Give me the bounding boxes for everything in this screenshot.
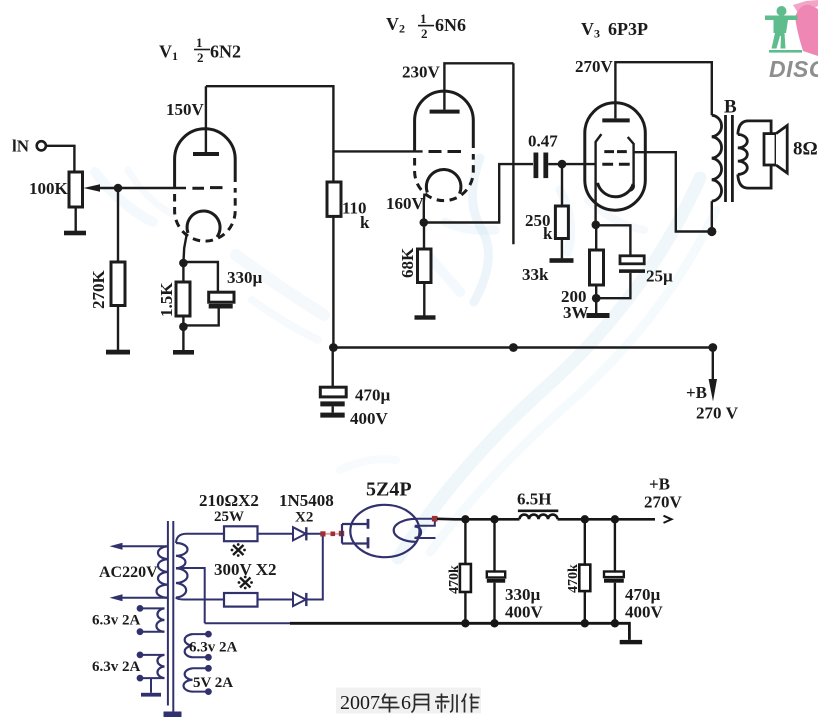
svg-text:470µ: 470µ xyxy=(355,386,391,405)
+B arrow down xyxy=(712,348,714,382)
svg-text:100K: 100K xyxy=(29,179,69,198)
wire junction to V1 grid xyxy=(118,187,186,189)
node 0V 470k1 xyxy=(461,619,469,627)
svg-text:270K: 270K xyxy=(89,270,108,310)
wire secondary top to speaker xyxy=(738,121,771,135)
svg-text:270 V: 270 V xyxy=(696,404,739,423)
node 0V 470k2 xyxy=(581,619,589,627)
5Z4P anode bracket xyxy=(342,524,368,544)
glyph zuo (make2) xyxy=(462,694,480,713)
node grid V1 junction xyxy=(114,184,123,193)
glyph zhi (make1) xyxy=(435,694,457,713)
wire junction down to 270K xyxy=(117,188,119,262)
5Z4P filament arc xyxy=(394,519,416,542)
svg-text:68K: 68K xyxy=(398,247,417,278)
tube V2 envelope (dashed bottom half) xyxy=(415,154,474,201)
wire HV bottom lead to resistor xyxy=(176,598,224,600)
svg-text:1.5K: 1.5K xyxy=(157,282,176,317)
node V3 grid xyxy=(558,160,567,169)
svg-text:DISC: DISC xyxy=(769,56,818,82)
wire 470k2 xyxy=(584,519,586,564)
wire resistor1 to diode1 xyxy=(258,533,294,535)
node winding C dots xyxy=(205,631,212,638)
wire 68K to ground xyxy=(423,283,425,316)
node winding D dots xyxy=(205,665,212,672)
wire HV center tap xyxy=(176,568,205,623)
node 0V 470u xyxy=(611,619,619,627)
svg-text:+B: +B xyxy=(649,475,670,494)
wire 330u to lower node xyxy=(183,309,218,326)
svg-text:6N6: 6N6 xyxy=(435,15,466,35)
node winding B dots xyxy=(137,652,144,659)
wire 1.5K to lower node xyxy=(182,316,184,327)
potentiometer R 100K xyxy=(69,172,83,207)
wire 470u bottom xyxy=(614,583,616,624)
svg-text:1N5408: 1N5408 xyxy=(279,491,334,510)
glyph yue (month) xyxy=(412,695,429,713)
node B+ 470k1 xyxy=(461,515,469,523)
logo: green figure xyxy=(765,6,802,53)
resistor R 110k xyxy=(327,182,341,216)
wire winding B leads xyxy=(140,655,164,678)
speaker 8 ohm xyxy=(764,134,776,165)
ground (winding B) xyxy=(141,693,161,697)
svg-text:210ΩX2: 210ΩX2 xyxy=(199,491,259,510)
capacitor C 330u 400V minus plate xyxy=(487,579,505,583)
resistor 300V X2 xyxy=(224,593,258,607)
power transformer T1 core xyxy=(168,521,173,706)
arrow +B output xyxy=(664,516,672,523)
svg-text:X2: X2 xyxy=(295,510,313,526)
resistor R 1.5K xyxy=(176,282,190,316)
svg-text:1: 1 xyxy=(172,49,178,63)
svg-text:V: V xyxy=(159,42,172,62)
wire 270K to ground xyxy=(117,306,119,351)
svg-text:33k: 33k xyxy=(522,265,549,284)
choke L 6.5H xyxy=(520,515,558,520)
logo: pink figure (top right corner) xyxy=(793,0,818,56)
node B+ 470k2 xyxy=(581,515,589,523)
pot wiper arrow xyxy=(98,187,118,189)
transformer B core xyxy=(726,115,733,202)
tube V3 plate xyxy=(602,118,629,122)
wire V3 plate up and right to OPT xyxy=(615,62,711,118)
wire node to 68K xyxy=(423,223,425,250)
wire filament step xyxy=(415,519,435,526)
node B+ 470u xyxy=(611,515,619,523)
node V2 cathode xyxy=(420,218,429,227)
node 0V 330u xyxy=(490,619,498,627)
5Z4P cathode hook xyxy=(415,527,422,538)
arrow primary bottom xyxy=(110,594,123,601)
tube V2 plate xyxy=(430,110,460,114)
node B+ 330u xyxy=(490,515,498,523)
svg-text:2: 2 xyxy=(421,26,428,41)
svg-text:6.3v 2A: 6.3v 2A xyxy=(92,659,141,675)
wire 200 ohm to node xyxy=(595,285,597,298)
wire winding C leads xyxy=(193,634,209,657)
ground (V1 cathode) xyxy=(173,350,194,355)
wire 230V corner down to 33k xyxy=(512,63,514,244)
wire V1 plate to 110k top xyxy=(206,86,334,182)
capacitor C 330u 400V plus plate xyxy=(487,572,505,578)
svg-text:0.47: 0.47 xyxy=(528,132,558,151)
wire 0V line (black part) xyxy=(290,623,629,640)
reference mark 1 xyxy=(231,543,246,557)
svg-text:470µ: 470µ xyxy=(625,585,661,604)
resistor R 470k (second) xyxy=(579,565,590,592)
wire primary top lead xyxy=(120,545,168,547)
T1 filament winding D xyxy=(184,668,193,691)
wire 25u to lower node xyxy=(596,273,630,298)
wire V2 cathode to coupling cap xyxy=(424,164,533,222)
choke core bar xyxy=(518,509,558,512)
capacitor C 330u minus plate xyxy=(209,304,233,309)
wire node to 200 ohm xyxy=(595,225,597,250)
svg-text:B: B xyxy=(724,97,737,118)
svg-text:6P3P: 6P3P xyxy=(608,19,648,39)
resistor R 470k (first) xyxy=(460,564,471,592)
capacitor C 25u plus plate xyxy=(620,256,644,264)
wire node to ground xyxy=(595,298,597,313)
wire pot to ground xyxy=(74,207,76,231)
wire grid node to V3 xyxy=(562,163,595,165)
date strip background xyxy=(336,688,481,714)
tube V1 plate xyxy=(193,152,219,156)
svg-text:400V: 400V xyxy=(505,603,544,622)
grid dashes V1 xyxy=(192,186,222,190)
capacitor C 0.47 left plate xyxy=(534,153,539,179)
arrow primary top xyxy=(110,543,123,550)
capacitor C 470u 400V minus plate xyxy=(320,401,344,406)
node red dot 1 xyxy=(320,531,325,536)
wire node down to 250k xyxy=(561,164,563,206)
tube V3 beam plate left / cathode lead xyxy=(596,134,602,225)
node below 1.5K xyxy=(179,322,188,331)
svg-text:1: 1 xyxy=(420,11,427,26)
svg-text:1: 1 xyxy=(196,35,203,50)
wire V2 plate up and right xyxy=(444,63,513,109)
wire 470u to ground xyxy=(332,406,334,412)
tube 5Z4P envelope xyxy=(350,505,419,557)
svg-text:25µ: 25µ xyxy=(646,267,673,286)
node red dot 4 xyxy=(432,516,438,522)
svg-text:270V: 270V xyxy=(575,57,614,76)
watermark (light blue decorative) xyxy=(95,158,716,558)
svg-text:AC220V: AC220V xyxy=(99,564,158,581)
svg-text:6N2: 6N2 xyxy=(210,42,241,62)
+B rail wire xyxy=(333,346,712,349)
reference mark 2 xyxy=(238,576,253,590)
node V3 cathode xyxy=(592,221,601,230)
wire V1 cathode down xyxy=(183,235,186,263)
svg-text:3W: 3W xyxy=(563,303,589,322)
wire diode1 to junction xyxy=(306,533,323,535)
svg-text:k: k xyxy=(360,213,370,232)
tube V1 envelope (solid top half) xyxy=(175,129,236,188)
capacitor C 470u 400V plus plate xyxy=(604,572,624,578)
wire 330u top xyxy=(493,519,495,571)
wire winding D leads xyxy=(193,668,209,691)
wire diode2 up to junction xyxy=(306,534,323,600)
svg-text:k: k xyxy=(543,224,553,243)
wire 0V return (navy part) xyxy=(205,622,292,624)
wire V2 cathode down xyxy=(423,194,426,223)
svg-text:2: 2 xyxy=(399,22,405,36)
wire node to 1.5K xyxy=(182,263,184,282)
node cathode V1 xyxy=(179,259,188,268)
svg-text:6.5H: 6.5H xyxy=(517,490,551,509)
wire input to pot xyxy=(46,146,74,172)
svg-text:470k: 470k xyxy=(447,565,462,594)
capacitor C 0.47 right plate xyxy=(543,153,548,179)
wire core bottom xyxy=(172,706,174,713)
wire primary bottom lead xyxy=(120,597,168,599)
ground (470u) xyxy=(320,413,344,418)
wire HV top lead to resistor xyxy=(176,534,224,543)
node OPT bottom / screen xyxy=(707,227,716,236)
resistor R 250k xyxy=(555,206,568,239)
wire filament top lead xyxy=(416,518,437,520)
svg-text:230V: 230V xyxy=(402,63,441,82)
tube V3 beam plate right xyxy=(628,137,634,191)
resistor R 68K xyxy=(418,249,432,283)
node rail 33k xyxy=(509,343,518,352)
svg-text:+B: +B xyxy=(686,383,707,402)
input terminal 1N xyxy=(37,141,46,150)
node rail right xyxy=(708,343,717,352)
svg-text:25W: 25W xyxy=(214,509,244,525)
wire resistor2 to diode2 xyxy=(258,599,294,601)
node below 200 ohm xyxy=(592,294,601,303)
wire cathode node to 25u cap xyxy=(596,225,631,256)
T1 filament winding A xyxy=(156,608,164,631)
wire V1 plate up xyxy=(205,86,207,152)
svg-text:3: 3 xyxy=(594,27,600,41)
resistor R 200 3W xyxy=(590,250,604,285)
wire cathode stub xyxy=(415,537,436,539)
wire 470u top xyxy=(614,519,616,571)
tube V2 cathode arc xyxy=(426,170,461,194)
wire cathode node to 330u cap xyxy=(183,262,218,292)
wire V3 screen to OPT bottom xyxy=(633,152,712,231)
wire lower node to ground xyxy=(182,327,184,350)
T1 HV secondary winding xyxy=(176,543,188,598)
transformer B primary winding xyxy=(712,115,722,201)
ground (PSU) xyxy=(620,640,642,644)
wire junction to 5Z4P (pink) xyxy=(325,533,341,535)
diode D2 1N5408 xyxy=(293,593,306,606)
svg-text:5Z4P: 5Z4P xyxy=(366,479,412,501)
svg-text:400V: 400V xyxy=(625,603,664,622)
capacitor C 25u minus plate xyxy=(619,269,645,273)
resistor 210ohm X2 25W xyxy=(224,526,258,541)
ground (270K) xyxy=(106,350,130,355)
wire 470k1 bottom xyxy=(464,592,466,623)
transformer B secondary winding xyxy=(738,135,748,175)
wire 330u bottom xyxy=(493,583,495,624)
node red dot 2 xyxy=(331,532,336,537)
wire 470k1 xyxy=(464,519,466,564)
svg-text:160V: 160V xyxy=(386,194,425,213)
svg-text:330µ: 330µ xyxy=(505,585,541,604)
svg-text:2007: 2007 xyxy=(340,692,380,714)
resistor R 270K xyxy=(111,262,125,306)
glyph nian (year) xyxy=(379,694,400,713)
node rail left xyxy=(329,343,338,352)
wire rail to 470u cap xyxy=(332,348,334,388)
wire winding B to ground xyxy=(150,678,152,693)
svg-text:150V: 150V xyxy=(166,100,205,119)
wire cap to grid node xyxy=(548,163,562,165)
wire secondary bottom to speaker xyxy=(738,165,771,188)
T1 filament winding C xyxy=(185,634,193,657)
svg-text:6: 6 xyxy=(401,692,411,714)
5Z4P anode plates xyxy=(367,519,370,549)
diode D1 1N5408 xyxy=(293,527,306,540)
tube V1 envelope (dashed bottom half) xyxy=(175,188,236,241)
capacitor C 330u plus plate xyxy=(209,292,234,302)
svg-text:400V: 400V xyxy=(350,409,389,428)
ground (200 ohm) xyxy=(587,313,610,318)
svg-text:330µ: 330µ xyxy=(227,268,263,287)
svg-text:lN: lN xyxy=(12,137,30,156)
wire 470k2 bottom xyxy=(584,591,586,623)
capacitor C 470u 400V minus plate xyxy=(604,579,624,583)
svg-text:V: V xyxy=(581,19,594,39)
svg-text:270V: 270V xyxy=(644,493,683,512)
tube V3 envelope xyxy=(585,103,646,210)
wire OPT primary bottom to node xyxy=(711,201,713,231)
capacitor C 470u 400V plus plate xyxy=(320,387,346,397)
ground (pot) xyxy=(64,231,86,236)
tube V2 envelope (solid top half) xyxy=(415,91,474,152)
node winding A dots xyxy=(137,605,144,612)
T1 filament winding B xyxy=(157,655,164,678)
tube V1 cathode arc xyxy=(187,211,220,237)
wire winding A leads xyxy=(140,608,164,631)
ground (250k) xyxy=(550,258,574,263)
svg-text:8Ω: 8Ω xyxy=(793,139,818,160)
svg-text:470k: 470k xyxy=(566,564,581,593)
T1 primary winding AC220V xyxy=(157,546,168,597)
svg-text:6.3v 2A: 6.3v 2A xyxy=(189,640,238,656)
grid dashes V2 xyxy=(429,150,462,153)
node red dot 3 xyxy=(339,531,344,536)
grid dashes V3 xyxy=(602,163,629,166)
wire 110k to +B rail xyxy=(332,216,334,347)
wire B+ line from 5Z4P xyxy=(437,517,520,520)
wire choke to output arrow xyxy=(558,518,656,521)
ground (68K) xyxy=(415,315,436,319)
wire V1 plate node to V2 grid xyxy=(333,150,422,152)
wire 250k to ground xyxy=(561,239,563,259)
tube V3 cathode arc xyxy=(598,183,634,197)
svg-text:5V 2A: 5V 2A xyxy=(193,675,233,691)
svg-text:6.3v 2A: 6.3v 2A xyxy=(92,613,141,629)
svg-text:2: 2 xyxy=(197,50,204,65)
screen grid dashes V3 xyxy=(604,150,627,153)
svg-text:V: V xyxy=(386,14,399,34)
ground (core) xyxy=(164,712,182,717)
